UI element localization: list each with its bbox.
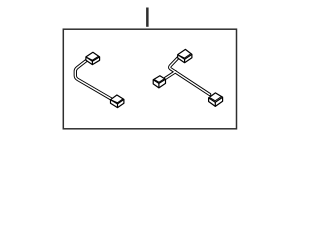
right harness connector E (bottom right)	[209, 93, 223, 107]
image border box	[63, 29, 236, 129]
left harness wire	[75, 59, 112, 99]
right harness connector C (top)	[178, 49, 192, 62]
left harness connector B (bottom)	[111, 95, 124, 108]
left harness connector A (top)	[86, 52, 100, 64]
tick mark above box	[146, 8, 149, 27]
right harness wires	[165, 57, 209, 94]
right harness connector D (left)	[153, 76, 165, 88]
